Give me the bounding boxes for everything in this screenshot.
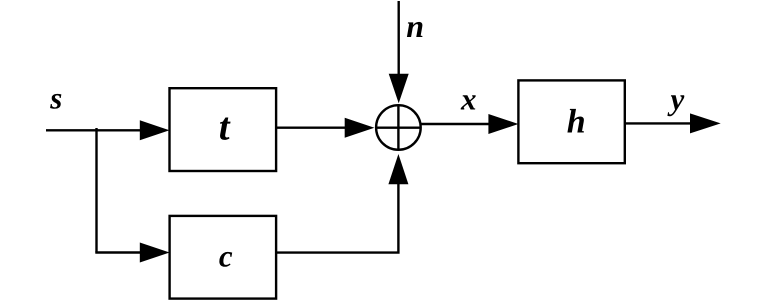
wire t output to adder	[276, 126, 346, 128]
node branch junction	[95, 128, 97, 253]
svg-text:x: x	[460, 82, 477, 117]
label c	[219, 239, 233, 274]
wire lower branch horizontal	[95, 251, 141, 253]
arrowhead into block h	[488, 114, 518, 134]
arrowhead into block t	[140, 120, 170, 140]
label s	[49, 81, 62, 116]
label x	[460, 82, 477, 117]
wire n input vertical	[398, 1, 400, 75]
wire adder to block h	[421, 123, 490, 125]
block h	[518, 80, 624, 163]
arrowhead into block c	[140, 243, 170, 263]
wire s input horizontal	[46, 129, 141, 131]
wire h output	[625, 122, 691, 124]
arrowhead into adder from t	[345, 118, 375, 138]
arrowhead into adder from below	[388, 154, 408, 184]
block t	[170, 88, 277, 171]
label t	[219, 106, 231, 149]
svg-text:s: s	[49, 81, 62, 116]
label n	[406, 8, 424, 44]
block c	[170, 216, 277, 299]
label h	[567, 103, 586, 140]
summing junction adder	[376, 105, 421, 150]
svg-text:c: c	[219, 239, 233, 274]
label y	[667, 81, 685, 116]
svg-text:t: t	[219, 106, 231, 149]
arrowhead into adder from n	[389, 74, 409, 103]
arrowhead output y	[690, 113, 721, 133]
svg-text:h: h	[567, 103, 586, 140]
wire c output to adder	[276, 184, 398, 253]
svg-text:n: n	[406, 8, 424, 44]
